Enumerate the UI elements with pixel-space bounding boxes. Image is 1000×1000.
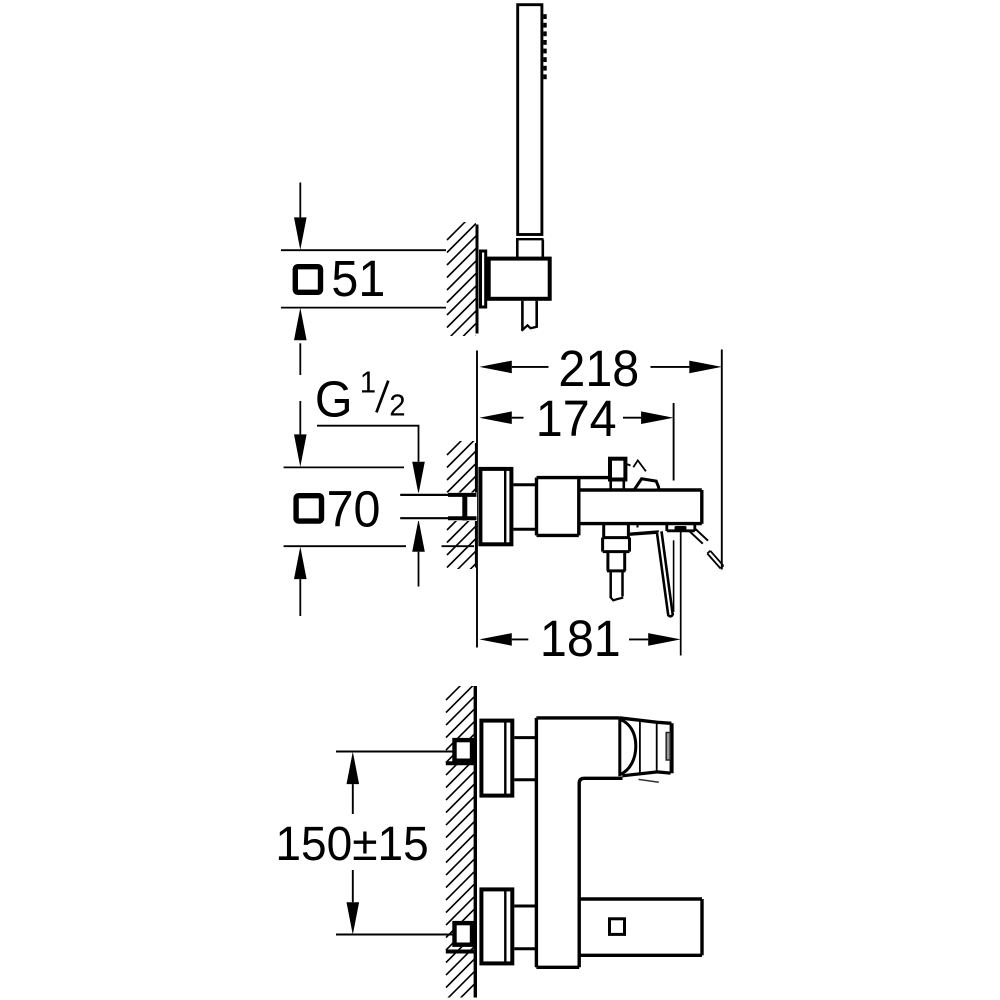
svg-text:51: 51 [331,250,385,307]
svg-text:181: 181 [540,610,621,667]
svg-text:1: 1 [360,366,376,400]
svg-text:218: 218 [558,340,639,397]
svg-text:150±15: 150±15 [275,817,428,871]
svg-text:174: 174 [536,390,617,447]
svg-text:2: 2 [389,389,405,423]
svg-text:G: G [315,370,353,427]
svg-text:70: 70 [327,480,381,537]
